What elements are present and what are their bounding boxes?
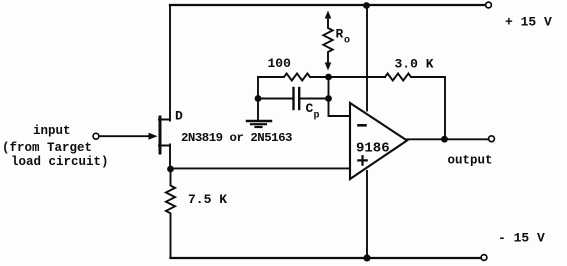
node top-rail / V+ junction <box>363 2 370 9</box>
wire node down to cap node <box>328 77 330 99</box>
wire cap left lead <box>258 98 293 100</box>
wire 100 left down <box>257 77 259 99</box>
resistor Ro with arrows <box>323 17 332 65</box>
transistor Q1 2N3819 channel <box>159 117 162 153</box>
node output junction <box>441 136 448 143</box>
wire cap right lead <box>299 98 328 100</box>
svg-text:100: 100 <box>268 56 292 71</box>
svg-text:7.5 K: 7.5 K <box>188 192 227 207</box>
svg-text:2N3819 or 2N5163: 2N3819 or 2N5163 <box>181 131 292 145</box>
svg-text:load circuit): load circuit) <box>11 155 109 169</box>
svg-text:output: output <box>448 154 493 168</box>
wire source lead <box>159 145 170 170</box>
op-amp plus symbol <box>358 156 366 164</box>
terminal -15V <box>481 255 487 261</box>
wire source to op-amp + input <box>171 167 350 169</box>
svg-text:D: D <box>175 109 183 124</box>
node 100/Ro junction <box>325 74 332 81</box>
node source junction <box>167 166 174 173</box>
op-amp minus symbol <box>359 124 366 127</box>
resistor R3 3.0K <box>385 74 445 140</box>
svg-text:o: o <box>344 36 350 47</box>
svg-text:(from Target: (from Target <box>2 141 92 155</box>
wire V+ supply to op-amp top <box>366 5 368 111</box>
svg-text:+ 15 V: + 15 V <box>505 15 552 30</box>
terminal output <box>489 136 495 142</box>
node bottom-rail / V- junction <box>363 254 370 261</box>
node cap right junction <box>325 95 332 102</box>
svg-text:9186: 9186 <box>356 141 390 157</box>
svg-text:R: R <box>336 27 344 42</box>
wire V- op-amp bottom to rail <box>366 171 368 258</box>
wire bottom -15V rail <box>171 257 482 259</box>
wire top +15V rail <box>170 4 486 6</box>
terminal +15V <box>486 2 492 8</box>
svg-text:p: p <box>314 111 320 122</box>
svg-text:- 15 V: - 15 V <box>498 231 545 246</box>
wire drain lead <box>159 5 170 121</box>
wire op-amp output <box>407 138 489 140</box>
capacitor Cp <box>292 88 294 109</box>
wire ground stem <box>257 99 259 121</box>
resistor R1 100 <box>258 74 328 81</box>
wire input to gate <box>99 135 150 137</box>
svg-text:3.0 K: 3.0 K <box>395 57 434 72</box>
op-amp U1 9186 <box>350 103 407 179</box>
ground <box>247 120 271 122</box>
resistor R2 7.5K <box>166 169 175 258</box>
node cap left junction <box>255 95 262 102</box>
wire cap node to op-amp - input <box>329 99 350 117</box>
terminal input <box>93 133 99 139</box>
svg-text:C: C <box>306 101 314 116</box>
wire node to 3.0K <box>329 76 386 78</box>
svg-text:input: input <box>33 124 71 138</box>
